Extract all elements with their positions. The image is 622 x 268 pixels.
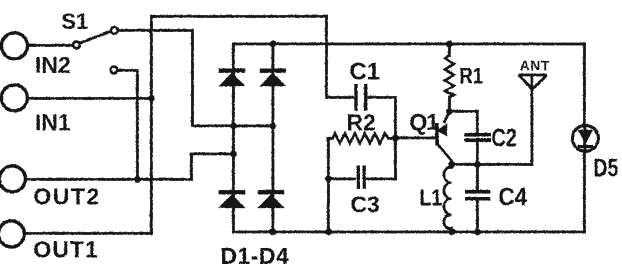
node xyxy=(446,108,453,115)
switch S1 contact xyxy=(73,41,80,48)
wire xyxy=(583,44,586,126)
capacitor C3 xyxy=(356,165,365,189)
node xyxy=(448,161,455,168)
svg-text:OUT1: OUT1 xyxy=(33,236,98,262)
terminal OUT1 xyxy=(0,221,24,247)
resistor R1 xyxy=(445,55,454,97)
wire xyxy=(118,30,273,126)
node xyxy=(325,228,332,235)
wire xyxy=(476,200,479,232)
node xyxy=(269,228,276,235)
switch S1 xyxy=(79,31,110,43)
diode D1 xyxy=(218,68,245,86)
wire xyxy=(232,44,235,232)
wire xyxy=(388,137,395,140)
svg-text:R2: R2 xyxy=(346,109,375,135)
node xyxy=(392,134,399,141)
wire xyxy=(233,230,584,233)
switch S1 contact xyxy=(111,27,118,34)
node xyxy=(230,122,237,129)
svg-text:Q1: Q1 xyxy=(409,109,439,135)
wire xyxy=(27,44,72,47)
diode D2 xyxy=(259,68,286,86)
node xyxy=(325,175,332,182)
capacitor C4 xyxy=(465,190,491,201)
node xyxy=(269,40,276,47)
wire xyxy=(25,154,233,180)
wire xyxy=(369,97,396,179)
terminal IN1 xyxy=(1,85,27,111)
switch S1 contact xyxy=(110,66,117,73)
node xyxy=(474,161,481,168)
capacitor C1 xyxy=(354,84,367,111)
svg-text:L1: L1 xyxy=(419,185,442,211)
node xyxy=(474,228,481,235)
wire xyxy=(328,177,354,180)
wire xyxy=(118,70,138,179)
wire xyxy=(325,16,328,97)
wire xyxy=(450,228,453,232)
wire xyxy=(450,163,531,166)
wire xyxy=(328,137,332,140)
svg-text:R1: R1 xyxy=(459,65,483,89)
inductor L1 xyxy=(444,167,452,229)
wire xyxy=(271,44,274,232)
antenna ANT xyxy=(519,75,547,90)
terminal IN2 xyxy=(1,33,27,59)
node xyxy=(230,150,237,157)
wire xyxy=(583,152,586,232)
svg-text:D1-D4: D1-D4 xyxy=(220,243,289,268)
node xyxy=(269,122,276,129)
resistor R2 xyxy=(332,133,388,143)
node xyxy=(148,95,155,102)
wire xyxy=(448,44,451,56)
wire xyxy=(151,16,326,233)
svg-text:IN1: IN1 xyxy=(35,109,71,135)
LED D5 xyxy=(572,125,598,151)
wire xyxy=(476,164,479,190)
terminal OUT2 xyxy=(0,166,25,192)
wire xyxy=(395,136,435,139)
svg-text:D5: D5 xyxy=(593,154,618,182)
svg-text:OUT2: OUT2 xyxy=(33,183,100,209)
wire xyxy=(448,111,477,133)
wire xyxy=(583,126,586,150)
wire xyxy=(530,75,533,165)
svg-text:C3: C3 xyxy=(350,191,379,217)
svg-text:S1: S1 xyxy=(61,9,88,34)
svg-text:ANT: ANT xyxy=(520,58,550,73)
wire xyxy=(367,177,395,180)
wire xyxy=(27,97,151,100)
wire xyxy=(24,232,151,235)
wire xyxy=(326,96,352,99)
svg-text:C1: C1 xyxy=(349,58,380,85)
node xyxy=(446,40,453,47)
svg-text:C4: C4 xyxy=(498,183,527,211)
wire xyxy=(450,164,453,168)
node xyxy=(448,228,455,235)
node xyxy=(134,176,141,183)
svg-text:IN2: IN2 xyxy=(35,52,71,78)
wire xyxy=(327,138,330,232)
svg-text:C2: C2 xyxy=(491,124,517,152)
diode D3 xyxy=(218,190,245,208)
wire xyxy=(448,97,451,111)
wire xyxy=(476,142,479,165)
diode D4 xyxy=(257,190,284,208)
capacitor C2 xyxy=(464,133,491,142)
wire xyxy=(233,42,584,45)
transistor Q1 xyxy=(435,112,451,165)
